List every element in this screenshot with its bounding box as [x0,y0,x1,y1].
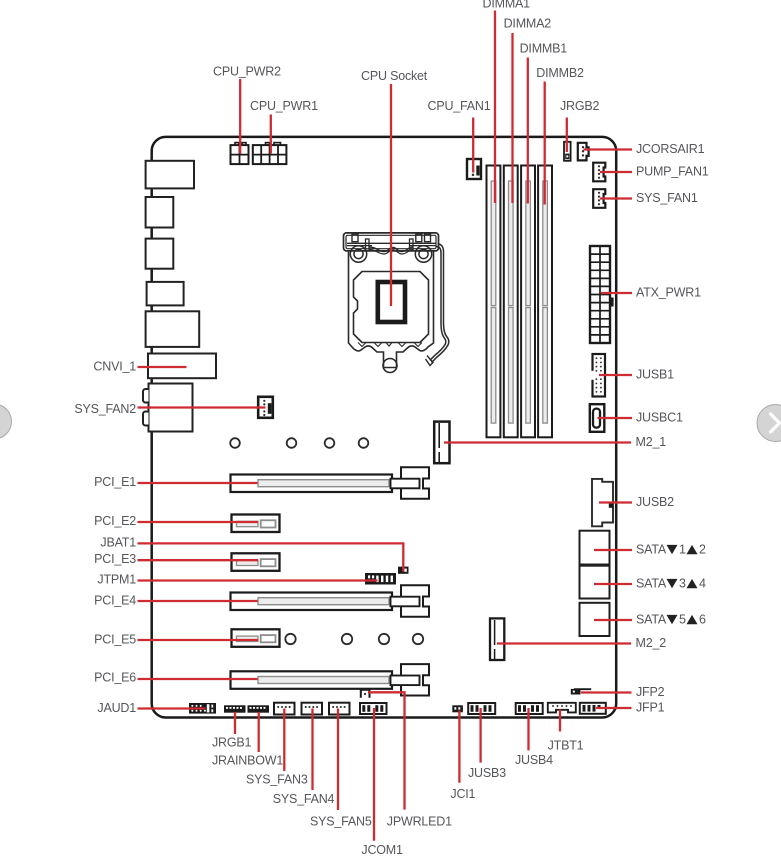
connector CPU_PWR1 [253,143,287,165]
label JRGB2 [560,99,600,113]
svg-text:JCOM1: JCOM1 [361,843,403,857]
wire PCI_E2 [138,521,259,523]
socket inner frame [354,272,429,343]
socket retention bar [347,242,436,244]
io port 2 [146,197,174,228]
svg-text:CNVI_1: CNVI_1 [93,360,136,374]
header JCI1 [452,705,463,712]
svg-text:JAUD1: JAUD1 [97,701,136,715]
label DIMMA2 [504,17,552,31]
io port 5 [146,311,200,347]
label JBAT1 [100,536,136,550]
wire DIMMA1 [494,11,496,204]
svg-text:PCI_E3: PCI_E3 [94,552,136,566]
label JFP1 [636,701,665,715]
label SYS_FAN4 [273,792,335,806]
wire PUMP_FAN1 [600,171,632,173]
pcie x16 slot PCI_E4 [231,585,430,616]
connector JRGB2 [564,142,571,161]
wire CPU_PWR2 [239,79,241,154]
wire JUSB4 [527,708,529,750]
svg-text:SYS_FAN3: SYS_FAN3 [246,773,308,787]
socket spring wave [369,247,413,252]
label JUSB4 [515,753,553,767]
svg-text:M2_2: M2_2 [636,636,667,650]
label JCORSAIR1 [636,142,705,156]
connector CPU_FAN1 [467,159,481,179]
svg-text:SYS_FAN4: SYS_FAN4 [273,792,335,806]
connector M2_2 [490,618,504,660]
label SYS_FAN2 [74,402,136,416]
label PCI_E5 [94,633,136,647]
wire CNVI_1 [138,366,187,368]
label JAUD1 [97,701,136,715]
svg-text:JTBT1: JTBT1 [548,739,584,753]
pcie x1 slot PCI_E3 [232,553,280,571]
svg-text:JRGB1: JRGB1 [212,736,252,750]
connector JCORSAIR1 [578,143,589,161]
svg-text:2: 2 [699,543,706,557]
header JUSB3 [468,703,495,714]
wire JFP2 [581,691,632,693]
carousel next button [757,405,781,442]
dimm slot DIMMA1 [487,166,501,438]
label JRGB1 [212,736,252,750]
header JUSB4 [516,703,543,714]
connector CNVI_1 [148,354,216,379]
header JRGB1 [224,705,246,712]
sata connector SATA56 [580,603,610,636]
svg-text:JRGB2: JRGB2 [560,99,600,113]
wire PCI_E1 [138,482,258,484]
connector SYS_FAN4 [302,703,323,715]
dimm slot DIMMB1 [521,166,535,438]
wire JRGB1 [234,712,236,734]
label M2_2 [636,636,667,650]
svg-text:CPU_FAN1: CPU_FAN1 [428,99,491,113]
svg-text:CPU_PWR1: CPU_PWR1 [250,99,318,113]
screw hole A4 [359,438,369,448]
pcie x16 slot PCI_E1 [231,467,430,498]
connector PUMP_FAN1 [593,163,605,182]
svg-text:M2_1: M2_1 [636,435,667,449]
svg-text:JCI1: JCI1 [450,787,475,801]
socket bottom clips [358,343,422,347]
label JFP2 [636,685,665,699]
wire DIMMB1 [527,58,529,204]
svg-text:PCI_E2: PCI_E2 [94,514,136,528]
dimm slot DIMMA2 [504,166,518,438]
label SATA56 [636,613,706,627]
socket screw boss left [350,246,366,262]
connector JTBT1 [548,703,576,713]
connector SYS_FAN3 [274,703,295,715]
svg-text:JPWRLED1: JPWRLED1 [387,815,452,829]
label PCI_E6 [94,671,136,685]
wire SATA12 [594,549,632,551]
wire SYS_FAN1 [600,197,632,199]
svg-text:SYS_FAN2: SYS_FAN2 [74,402,136,416]
wire JCI1 [458,711,460,783]
label DIMMB1 [520,42,568,56]
label JCOM1 [361,843,403,857]
label PCI_E1 [94,475,136,489]
svg-text:SATA: SATA [636,613,667,627]
screw hole B3 [379,634,389,644]
label CPU Socket [361,69,428,83]
connector SYS_FAN5 [329,703,350,715]
connector ATX_PWR1 [590,246,614,343]
wire SYS_FAN5 [337,709,339,811]
wire ATX_PWR1 [601,292,632,294]
svg-text:SYS_FAN5: SYS_FAN5 [310,815,372,829]
wire JUSBC1 [598,417,633,419]
svg-text:JTPM1: JTPM1 [97,573,136,587]
cpu socket U1 [344,233,449,373]
connector JUSB2 [592,479,613,526]
pcie x16 slot PCI_E6 [231,664,430,695]
label PUMP_FAN1 [636,165,709,179]
label JUSBC1 [636,411,683,425]
wire CPU_FAN1 [472,118,474,173]
label JPWRLED1 [387,815,452,829]
leader lines red [138,11,633,841]
svg-text:SATA: SATA [636,577,667,591]
connector JUSB1 [591,354,605,397]
label CPU_PWR1 [250,99,318,113]
connector SYS_FAN2 [258,397,273,418]
svg-text:PCI_E1: PCI_E1 [94,475,136,489]
wire JRGB2 [566,118,568,153]
header JTPM1 [365,573,396,585]
label JUSB3 [468,766,506,780]
wire JTPM1 [138,579,378,581]
wire SATA34 [594,583,632,585]
wire SYS_FAN4 [311,709,313,791]
socket plate [349,251,434,368]
socket lever [432,244,449,363]
label JUSB1 [636,368,674,382]
label DIMMB2 [536,66,584,80]
svg-text:ATX_PWR1: ATX_PWR1 [636,286,701,300]
wire JPWRLED1 [368,692,405,809]
svg-text:6: 6 [699,613,706,627]
wire SATA56 [594,619,632,621]
svg-text:JUSB4: JUSB4 [515,753,553,767]
svg-text:JFP1: JFP1 [636,701,665,715]
label ATX_PWR1 [636,286,701,300]
svg-text:DIMMA2: DIMMA2 [504,17,552,31]
svg-text:PCI_E6: PCI_E6 [94,671,136,685]
wire CPU Socket [390,84,392,306]
carousel prev button [0,404,12,439]
wire M2_1 [444,441,631,443]
svg-text:4: 4 [699,577,706,591]
io port 1 [146,161,194,189]
label CPU_PWR2 [213,65,281,79]
svg-text:PCI_E5: PCI_E5 [94,633,136,647]
label JTBT1 [548,739,584,753]
wire JRAINBOW1 [258,712,260,752]
label M2_1 [636,435,667,449]
wire SYS_FAN2 [138,406,266,408]
label PCI_E3 [94,552,136,566]
connector JUSBC1 [590,404,605,432]
wire PCI_E4 [138,600,258,602]
svg-text:DIMMB2: DIMMB2 [536,66,584,80]
header JRAINBOW1 [248,705,270,712]
label SYS_FAN5 [310,815,372,829]
label JCI1 [450,787,475,801]
label SYS_FAN3 [246,773,308,787]
label PCI_E4 [94,593,136,607]
svg-text:DIMMA1: DIMMA1 [483,0,531,11]
svg-text:JBAT1: JBAT1 [100,536,136,550]
socket screw boss right [415,246,431,262]
wire JBAT1 [138,543,404,571]
label CNVI_1 [93,360,136,374]
cpu window [378,282,405,322]
wire SYS_FAN3 [283,709,285,772]
wire CPU_PWR1 [270,115,272,154]
wire JAUD1 [138,707,206,709]
sata connector SATA34 [580,566,610,599]
svg-text:JUSB2: JUSB2 [636,495,674,509]
pcie x1 slot PCI_E2 [232,515,280,533]
svg-text:CPU_PWR2: CPU_PWR2 [213,65,281,79]
label SATA34 [636,577,706,591]
label JUSB2 [636,495,674,509]
svg-text:SATA: SATA [636,543,667,557]
label JTPM1 [97,573,136,587]
connector JPWRLED1 [361,690,370,698]
svg-text:5: 5 [679,613,686,627]
sata connector SATA12 [580,531,610,565]
io port audio stack [143,384,193,432]
svg-text:CPU Socket: CPU Socket [361,69,428,83]
svg-text:JRAINBOW1: JRAINBOW1 [212,754,283,768]
label DIMMA1 [483,0,531,11]
label SATA12 [636,543,706,557]
label CPU_FAN1 [428,99,491,113]
label JRAINBOW1 [212,754,283,768]
header JCOM1 [360,703,387,714]
wire DIMMA2 [511,33,513,203]
screw hole A2 [287,438,297,448]
screw hole B4 [413,634,423,644]
io port 3 [146,239,174,269]
svg-text:JUSBC1: JUSBC1 [636,411,683,425]
svg-text:PCI_E4: PCI_E4 [94,593,136,607]
wire DIMMB2 [544,82,546,205]
connector SYS_FAN1 [593,189,605,208]
svg-text:JUSB1: JUSB1 [636,368,674,382]
svg-text:JUSB3: JUSB3 [468,766,506,780]
header JFP2 [571,689,591,695]
wire JCOM1 [373,708,375,841]
label SYS_FAN1 [636,191,698,205]
header JAUD1 [189,703,216,714]
socket outer bracket [344,233,439,251]
wire JCORSAIR1 [584,148,633,150]
screw hole A1 [230,438,240,448]
socket bottom screw [383,359,397,373]
svg-text:3: 3 [679,577,686,591]
wire JUSB2 [599,501,632,503]
svg-text:1: 1 [679,543,686,557]
label PCI_E2 [94,514,136,528]
wire JFP1 [596,707,632,709]
board outline [152,137,617,718]
screw hole B2 [342,634,352,644]
wire M2_2 [497,642,631,644]
svg-text:JFP2: JFP2 [636,685,665,699]
wire JTBT1 [559,710,561,732]
screw hole B1 [285,634,295,644]
svg-text:DIMMB1: DIMMB1 [520,42,568,56]
wire JUSB1 [599,374,632,376]
wire PCI_E6 [138,678,258,680]
wire PCI_E5 [138,639,259,641]
screw hole A3 [325,438,335,448]
connector M2_1 [434,422,449,464]
header JFP1 [580,703,606,714]
svg-text:JCORSAIR1: JCORSAIR1 [636,142,705,156]
jumper JBAT1 [398,567,409,574]
dimm slot DIMMB2 [538,166,552,438]
pcie x1 slot PCI_E5 [232,629,280,647]
io port 4 [147,282,184,306]
connector CPU_PWR2 [231,143,249,165]
wire PCI_E3 [138,559,259,561]
wire JUSB3 [479,708,481,763]
svg-text:PUMP_FAN1: PUMP_FAN1 [636,165,709,179]
svg-text:SYS_FAN1: SYS_FAN1 [636,191,698,205]
